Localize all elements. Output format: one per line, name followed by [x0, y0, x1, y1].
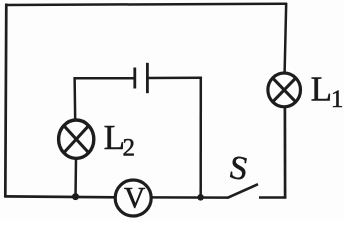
svg-text:V: V: [124, 182, 145, 214]
svg-text:L: L: [311, 70, 332, 109]
svg-text:1: 1: [331, 86, 344, 113]
svg-text:2: 2: [123, 135, 136, 162]
